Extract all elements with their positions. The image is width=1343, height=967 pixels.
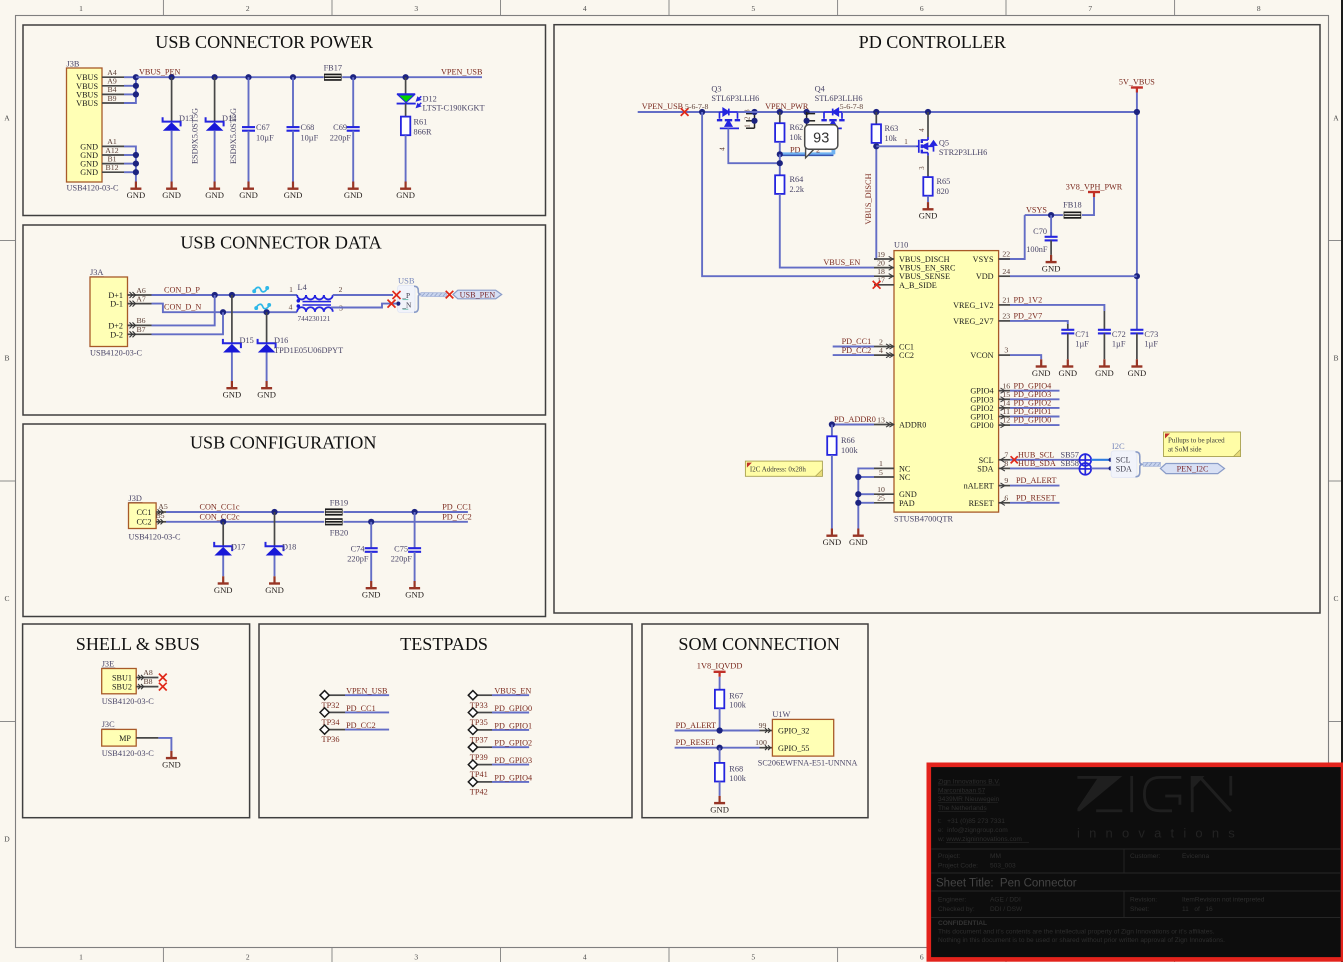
svg-text:3: 3 (414, 953, 418, 962)
no-ERC cross on _N (388, 300, 396, 308)
svg-text:GPIO_32: GPIO_32 (778, 727, 809, 736)
wire VPEN_PWR bus segment (738, 109, 825, 115)
svg-text:503_003: 503_003 (990, 863, 1016, 870)
svg-text:MM: MM (990, 853, 1001, 860)
svg-text:5: 5 (879, 468, 883, 477)
wire R62 to R64 (777, 154, 783, 175)
diode D17 TVS (214, 522, 245, 577)
svg-text:5-6-7-8: 5-6-7-8 (685, 102, 708, 111)
svg-text:SB58: SB58 (1061, 459, 1079, 468)
svg-text:B7: B7 (136, 325, 145, 334)
svg-text:J3C: J3C (102, 720, 115, 729)
svg-text:PD_CC1: PD_CC1 (842, 337, 872, 346)
svg-text:HUB_SCL: HUB_SCL (1018, 450, 1054, 459)
wire 5V_VBUS vertical (1134, 93, 1140, 330)
svg-text:PD_2V7: PD_2V7 (1014, 311, 1043, 320)
svg-text:USB4120-03-C: USB4120-03-C (129, 532, 182, 541)
no-ERC cross at USB_PEN (446, 291, 454, 299)
svg-text:USB_PEN: USB_PEN (460, 290, 496, 299)
svg-text:6: 6 (1004, 493, 1008, 502)
svg-text:100nF: 100nF (1026, 245, 1048, 254)
svg-text:ESD9X5.0ST5G: ESD9X5.0ST5G (229, 108, 238, 164)
svg-text:4: 4 (289, 303, 293, 312)
capacitor C71 1uF (1061, 330, 1089, 360)
section box PD CONTROLLER (554, 25, 1320, 613)
svg-text:A_B_SIDE: A_B_SIDE (899, 281, 937, 290)
svg-text:13: 13 (877, 415, 885, 424)
svg-text:VBUS_EN: VBUS_EN (823, 258, 860, 267)
svg-text:C67: C67 (256, 123, 270, 132)
wire VBUS_DISCH vertical (873, 143, 879, 259)
svg-text:5-6-7-8: 5-6-7-8 (840, 102, 863, 111)
U10 right pin stubs with numbers (999, 250, 1011, 503)
svg-text:VSYS: VSYS (973, 255, 994, 264)
diode D13 TVS (163, 77, 194, 181)
capacitor C68 10uF (287, 77, 319, 181)
svg-text:SC206EWFNA-E51-UNNNA: SC206EWFNA-E51-UNNNA (758, 759, 858, 768)
power port 1V8_IQVDD (697, 661, 743, 677)
svg-text:USB CONFIGURATION: USB CONFIGURATION (190, 432, 377, 452)
svg-text:Zign Innovations B.V.: Zign Innovations B.V. (938, 779, 1000, 786)
svg-text:CC2: CC2 (136, 518, 151, 527)
svg-text:C74: C74 (351, 545, 366, 554)
svg-text:This document and it's content: This document and it's contents are the … (938, 929, 1215, 936)
svg-text:PD_CC2: PD_CC2 (842, 346, 872, 355)
J3D pin stubs A5 B5 (155, 502, 167, 524)
svg-text:HUB_SDA: HUB_SDA (1018, 459, 1056, 468)
svg-text:Revision:: Revision: (1130, 897, 1157, 904)
connector J3D (129, 494, 182, 542)
svg-text:I2C Address: 0x28h: I2C Address: 0x28h (750, 465, 807, 473)
svg-text:Checked by:: Checked by: (938, 906, 975, 913)
svg-text:ItemRevision not interpreted: ItemRevision not interpreted (1182, 897, 1265, 904)
svg-text:3: 3 (414, 4, 418, 13)
svg-text:C69: C69 (333, 123, 347, 132)
svg-text:SDA: SDA (977, 464, 993, 473)
ground NC/PAD tie (849, 529, 868, 548)
ferrite bead FB18 (1063, 200, 1081, 218)
J3B pin stubs and numbers A4 A9 B4 B9 A1 A12 B1 B12 (102, 68, 124, 172)
svg-text:B: B (1333, 354, 1338, 363)
svg-text:VCON: VCON (970, 351, 993, 360)
svg-text:L4: L4 (298, 283, 308, 292)
svg-text:C: C (4, 594, 9, 603)
svg-text:SOM CONNECTION: SOM CONNECTION (678, 634, 839, 654)
svg-text:Q5: Q5 (939, 139, 949, 148)
svg-text:PD CONTROLLER: PD CONTROLLER (859, 32, 1007, 52)
svg-text:2: 2 (745, 116, 752, 120)
svg-text:VBUS_PEN: VBUS_PEN (139, 68, 180, 77)
svg-text:7: 7 (1088, 4, 1092, 13)
svg-text:USB CONNECTOR POWER: USB CONNECTOR POWER (155, 32, 374, 52)
testpad TP32 net VPEN_USB (320, 687, 389, 710)
section box TESTPADS (259, 624, 632, 818)
svg-text:220pF: 220pF (347, 555, 369, 564)
svg-text:2.2k: 2.2k (790, 185, 805, 194)
svg-text:R64: R64 (790, 175, 805, 184)
svg-text:PD_GPIO0: PD_GPIO0 (494, 704, 532, 713)
wire PD_RESET to GPIO_55 (675, 738, 773, 751)
section box SHELL & SBUS (23, 624, 250, 818)
svg-text:Evicenna: Evicenna (1182, 853, 1209, 860)
ground D17 (214, 576, 233, 595)
svg-text:10k: 10k (885, 134, 898, 143)
svg-text:PAD: PAD (899, 499, 915, 508)
svg-text:RESET: RESET (969, 499, 994, 508)
svg-text:10µF: 10µF (256, 133, 274, 142)
title block with red highlight border (929, 765, 1343, 960)
svg-text:J3E: J3E (102, 659, 114, 668)
Q3 pins 1-2-3 bracket (745, 109, 758, 128)
ground J3C MP (162, 751, 181, 770)
svg-text:23: 23 (1002, 312, 1010, 321)
svg-text:VREG_2V7: VREG_2V7 (953, 317, 993, 326)
wire L4 pin2 to harness _P (333, 294, 393, 296)
svg-text:A8: A8 (143, 668, 153, 677)
svg-text:t: +31 (0)85 273 7331: t: +31 (0)85 273 7331 (938, 818, 1005, 825)
svg-text:GPIO_55: GPIO_55 (778, 744, 809, 753)
svg-text:866R: 866R (414, 128, 432, 137)
svg-text:J3A: J3A (90, 268, 103, 277)
svg-text:NC: NC (899, 473, 911, 482)
ground C71 (1058, 359, 1077, 378)
svg-text:SB57: SB57 (1061, 450, 1079, 459)
wire CON_CC2c / PD_CC2 (166, 519, 468, 525)
svg-text:CON_CC2c: CON_CC2c (200, 513, 240, 522)
svg-text:820: 820 (937, 187, 949, 196)
svg-text:A: A (4, 114, 10, 123)
svg-text:VPEN_USB: VPEN_USB (642, 102, 684, 111)
resistor R65 820 (923, 177, 950, 202)
svg-text:USB CONNECTOR DATA: USB CONNECTOR DATA (180, 232, 381, 252)
svg-text:3: 3 (1004, 346, 1008, 355)
svg-text:PD_ALERT: PD_ALERT (1016, 476, 1056, 485)
J3C pin stub MP (136, 737, 158, 739)
ground C72 (1095, 359, 1114, 378)
diode D14 TVS (206, 77, 238, 181)
svg-text:PD_CC1: PD_CC1 (442, 502, 472, 511)
svg-text:VBUS_EN: VBUS_EN (494, 687, 531, 696)
resistor R68 100k (715, 748, 747, 796)
U10 pin direction arrows (886, 256, 1005, 505)
ground R65 (919, 202, 938, 221)
svg-text:CONFIDENTIAL: CONFIDENTIAL (938, 920, 987, 927)
svg-text:USB: USB (398, 276, 415, 286)
svg-text:D+2: D+2 (108, 321, 123, 330)
power port 5V_VBUS (1119, 77, 1155, 92)
svg-text:Q4: Q4 (815, 85, 826, 94)
svg-text:LTST-C190KGKT: LTST-C190KGKT (423, 104, 485, 113)
svg-text:3: 3 (919, 166, 926, 170)
svg-text:1: 1 (79, 953, 83, 962)
connector J3A (90, 268, 143, 358)
wire R64 to VBUS_EN (780, 194, 874, 268)
capacitor C69 220pF (330, 77, 360, 181)
no-ERC cross on _P (393, 291, 401, 299)
svg-text:C75: C75 (394, 545, 408, 554)
harness net label PEN_I2C (1160, 464, 1224, 474)
svg-text:FB19: FB19 (330, 498, 348, 507)
svg-text:PD_CC2: PD_CC2 (346, 721, 376, 730)
svg-text:R67: R67 (729, 691, 743, 700)
svg-text:220pF: 220pF (391, 555, 413, 564)
wire Q5 drain to R65 (919, 156, 928, 178)
svg-text:100k: 100k (841, 446, 858, 455)
svg-text:R61: R61 (414, 118, 428, 127)
wire R63 to Q5 gate (876, 138, 916, 147)
title block address text (937, 779, 1029, 844)
svg-text:A: A (1333, 114, 1339, 123)
svg-text:D15: D15 (240, 336, 254, 345)
svg-text:J3B: J3B (67, 60, 80, 69)
svg-text:D: D (4, 835, 10, 844)
svg-text:8: 8 (1004, 459, 1008, 468)
wires GPIO4-GPIO0 with net labels (1010, 381, 1060, 425)
wire VBUS_SENSE from VPEN_USB (702, 112, 874, 276)
section box USB CONNECTOR POWER (23, 25, 546, 216)
svg-text:nALERT: nALERT (964, 482, 994, 491)
svg-text:Engineer:: Engineer: (938, 897, 966, 904)
capacitor C72 1uF (1098, 330, 1126, 360)
testpad TP35 net PD_GPIO0 (468, 704, 532, 727)
no-ERC cross HUB_SCL (1011, 456, 1018, 463)
svg-text:D-2: D-2 (110, 330, 123, 339)
harness connector USB (398, 276, 421, 313)
no-ERC cross on VPEN_USB (681, 108, 689, 116)
harness connector I2C (1111, 441, 1143, 478)
svg-text:4: 4 (583, 4, 587, 13)
svg-text:ADDR0: ADDR0 (899, 421, 926, 430)
no-ERC cross SBU2 (159, 683, 167, 691)
svg-text:PD_GPIO3: PD_GPIO3 (494, 756, 532, 765)
svg-text:10k: 10k (790, 133, 803, 142)
svg-text:TPD1E05U06DPYT: TPD1E05U06DPYT (274, 346, 343, 355)
svg-text:D16: D16 (274, 336, 288, 345)
svg-text:1: 1 (745, 124, 752, 127)
connector J3C (102, 720, 155, 758)
J3E pin stubs A8 B8 (136, 668, 158, 689)
differential pair directive on CON_D_N (255, 304, 270, 309)
wire VREG_1V2 to C72 (1010, 305, 1104, 311)
testpad TP37 net PD_GPIO1 (468, 721, 532, 744)
svg-text:2: 2 (246, 953, 250, 962)
resistor R62 10k (775, 112, 803, 154)
svg-text:744230121: 744230121 (298, 314, 331, 323)
svg-text:w: www.zigninnovations.com: w: www.zigninnovations.com (937, 836, 1022, 843)
svg-text:C70: C70 (1033, 227, 1047, 236)
svg-text:R68: R68 (729, 765, 743, 774)
svg-text:GPIO0: GPIO0 (970, 421, 993, 430)
svg-text:TESTPADS: TESTPADS (400, 634, 488, 654)
ground D14 (205, 182, 224, 201)
solder bridge SB58 symbol (1079, 462, 1091, 475)
svg-text:Project Code:: Project Code: (938, 863, 978, 870)
svg-text:24: 24 (1002, 267, 1010, 276)
svg-text:1: 1 (289, 285, 293, 294)
svg-text:VSYS: VSYS (1026, 206, 1047, 215)
capacitor C75 220pF (391, 512, 421, 581)
wire bus to R63 and Q5 (842, 109, 1137, 115)
ferrite bead FB17 (324, 64, 342, 81)
svg-text:4: 4 (919, 128, 926, 132)
wire B6 to CON_D_P (152, 295, 215, 325)
resistor R61 866R (401, 104, 432, 182)
svg-text:CC1: CC1 (136, 508, 151, 517)
capacitor C67 10uF (242, 77, 274, 181)
wire VPEN_USB bus segment (638, 109, 720, 115)
svg-text:Sheet Title: Pen Connector: Sheet Title: Pen Connector (936, 878, 1077, 890)
svg-text:The Netherlands: The Netherlands (938, 805, 987, 812)
svg-text:PD_1V2: PD_1V2 (1014, 295, 1043, 304)
svg-text:3V8_VPH_PWR: 3V8_VPH_PWR (1066, 182, 1123, 191)
svg-text:4: 4 (719, 147, 727, 151)
note Pullups to be placed at SoM side (1164, 432, 1241, 457)
svg-text:1µF: 1µF (1112, 339, 1126, 348)
wire PD_CC1 to pin2 (833, 337, 874, 347)
svg-text:6: 6 (920, 953, 924, 962)
title block field separators (931, 849, 1341, 918)
svg-text:9: 9 (1004, 476, 1008, 485)
svg-text:D12: D12 (423, 95, 437, 104)
svg-text:B6: B6 (136, 316, 145, 325)
svg-text:AGE / DDI: AGE / DDI (990, 897, 1021, 904)
wire VBUS_PEN bus (136, 74, 482, 80)
diode D16 TPD1E05U06DPYT (258, 312, 344, 381)
svg-text:USB4120-03-C: USB4120-03-C (102, 749, 155, 758)
svg-text:1V8_IQVDD: 1V8_IQVDD (697, 661, 743, 670)
svg-text:USB4120-03-C: USB4120-03-C (90, 349, 143, 358)
capacitor C73 1uF (1130, 330, 1158, 360)
wire L4 pin3 to harness _N (331, 304, 396, 308)
svg-text:CON_D_N: CON_D_N (164, 303, 201, 312)
svg-text:D17: D17 (231, 543, 245, 552)
testpad TP41 net PD_GPIO3 (468, 756, 532, 779)
section box USB CONFIGURATION (23, 424, 546, 617)
svg-text:C73: C73 (1144, 330, 1158, 339)
wire J3B GND links (124, 146, 139, 181)
svg-text:100k: 100k (729, 774, 746, 783)
harness sleeve USB (421, 293, 447, 297)
svg-text:B8: B8 (143, 677, 152, 686)
svg-text:VPEN_PWR: VPEN_PWR (765, 102, 809, 111)
svg-text:DDI / DSW: DDI / DSW (990, 906, 1023, 913)
svg-text:A7: A7 (136, 294, 146, 303)
ground C75 (405, 581, 424, 600)
svg-text:PD_ADDR0: PD_ADDR0 (834, 415, 876, 424)
svg-text:10µF: 10µF (301, 133, 319, 142)
svg-text:C72: C72 (1112, 330, 1126, 339)
wire VSYS net (999, 197, 1094, 259)
no-ERC cross pin 17 A_B_SIDE (873, 281, 881, 289)
connector J3E (102, 659, 155, 706)
svg-text:C: C (1333, 594, 1338, 603)
svg-text:PD_CC2: PD_CC2 (442, 513, 472, 522)
svg-text:FB17: FB17 (324, 64, 342, 73)
ground R68 (710, 796, 729, 815)
J3A pin stubs A6 A7 B6 B7 (128, 286, 152, 338)
svg-text:Project:: Project: (938, 853, 961, 860)
svg-text:PD_GPIO0: PD_GPIO0 (1014, 416, 1052, 425)
svg-text:1: 1 (79, 4, 83, 13)
capacitor C74 220pF (347, 522, 377, 581)
ground D15 (223, 381, 242, 400)
svg-text:CON_CC1c: CON_CC1c (200, 502, 240, 511)
testpad TP42 net PD_GPIO4 (468, 773, 532, 796)
svg-text:I2C: I2C (1112, 441, 1125, 451)
wire PD_ADDR0 to pin13 (829, 415, 876, 428)
svg-text:PD_RESET: PD_RESET (676, 738, 716, 747)
svg-text:R66: R66 (841, 436, 855, 445)
svg-text:Marconibaan 57: Marconibaan 57 (938, 787, 986, 794)
ground R61 (396, 182, 415, 201)
svg-text:21: 21 (1002, 296, 1010, 305)
ground C70 (1042, 255, 1061, 274)
svg-text:100k: 100k (729, 701, 746, 710)
svg-text:VPEN_USB: VPEN_USB (441, 68, 483, 77)
tooltip callout 93 (805, 125, 838, 158)
svg-text:U1W: U1W (772, 710, 790, 719)
svg-text:PD_CC1: PD_CC1 (346, 704, 376, 713)
svg-text:PD_RESET: PD_RESET (1016, 493, 1056, 502)
svg-text:VBUS_DISCH: VBUS_DISCH (864, 173, 873, 224)
IC U10 STUSB4700QTR (894, 241, 999, 524)
svg-text:1: 1 (904, 138, 908, 146)
svg-text:VPEN_USB: VPEN_USB (346, 687, 388, 696)
svg-text:CC2: CC2 (899, 351, 914, 360)
svg-text:Sheet:: Sheet: (1130, 906, 1149, 913)
svg-text:innovations: innovations (1077, 826, 1244, 841)
resistor R63 10k (872, 112, 899, 146)
Q4 gate wire to PD net (832, 128, 834, 154)
svg-text:22: 22 (1002, 250, 1010, 259)
testpad TP33 net VBUS_EN (468, 687, 531, 710)
wire PD_ALERT pin9 (1010, 476, 1060, 486)
svg-text:220pF: 220pF (330, 133, 352, 142)
svg-text:SHELL & SBUS: SHELL & SBUS (76, 634, 200, 654)
no-ERC cross SBU1 (159, 674, 167, 682)
ground J3B (127, 182, 146, 201)
wire MP to ground (158, 738, 171, 751)
svg-text:5: 5 (751, 953, 755, 962)
svg-text:USB4120-03-C: USB4120-03-C (102, 697, 155, 706)
svg-text:STUSB4700QTR: STUSB4700QTR (894, 514, 953, 523)
IC U1W SC206EWFNA-E51-UNNNA (758, 710, 858, 768)
wire SB57 to harness SCL (1091, 458, 1113, 462)
transistor Q5 STR2P3LLH6 (917, 112, 988, 157)
svg-text:at SoM side: at SoM side (1168, 446, 1201, 454)
wire PD_ALERT to GPIO_32 (675, 721, 773, 734)
svg-text:Q3: Q3 (711, 85, 721, 94)
wire VDD pin24 (1010, 275, 1137, 277)
ground C67 (239, 182, 258, 201)
svg-text:_N: _N (401, 301, 412, 310)
svg-text:VREG_1V2: VREG_1V2 (953, 301, 993, 310)
diode D18 TVS (266, 512, 297, 576)
svg-text:93: 93 (813, 130, 829, 146)
svg-text:ESD9X5.0ST5G: ESD9X5.0ST5G (191, 108, 200, 164)
transistor Q3 STL6P3LLH6 (685, 85, 759, 129)
testpad TP39 net PD_GPIO2 (468, 739, 532, 762)
svg-text:Customer:: Customer: (1130, 853, 1161, 860)
svg-text:Nothing in this document is to: Nothing in this document is to be used o… (938, 937, 1225, 944)
transistor Q4 STL6P3LLH6 (804, 85, 864, 129)
svg-text:B9: B9 (107, 94, 116, 103)
svg-text:6: 6 (920, 4, 924, 13)
ground C73 (1128, 359, 1147, 378)
svg-text:1µF: 1µF (1075, 339, 1089, 348)
svg-text:11 of 16: 11 of 16 (1182, 906, 1213, 913)
harness net label USB_PEN (453, 290, 502, 299)
